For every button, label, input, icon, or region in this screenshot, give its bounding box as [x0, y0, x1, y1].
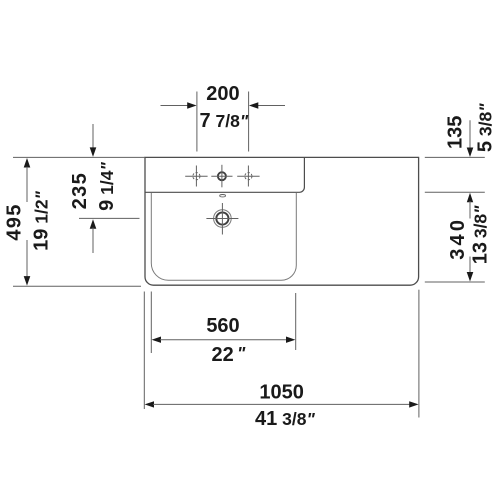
washbasin outer outline — [145, 157, 419, 285]
dim 560 extension line right — [295, 293, 297, 350]
dim 495 extension line top — [13, 156, 145, 158]
dim 135 extension line bottom / deck level — [425, 191, 485, 193]
svg-text:235: 235 — [69, 172, 91, 210]
svg-text:135: 135 — [445, 116, 467, 149]
svg-text:22": 22" — [212, 343, 246, 366]
dim 495 dimension line with arrows — [24, 158, 31, 286]
basin bowl — [151, 193, 296, 280]
drain hole — [206, 203, 238, 235]
dim 340 dimension line with arrows — [467, 193, 474, 282]
svg-text:19 1/2": 19 1/2" — [31, 190, 53, 250]
dim 235 lower arrow — [90, 219, 97, 253]
svg-text:41 3/8": 41 3/8" — [255, 408, 315, 430]
dim 200 arrow left — [161, 102, 197, 108]
dim 200 extension line left — [196, 92, 198, 152]
dim 560 extension line left — [150, 292, 152, 354]
dim 560 dimension line with arrows — [152, 337, 296, 343]
svg-text:13 3/8": 13 3/8" — [470, 205, 492, 264]
svg-text:1050: 1050 — [259, 381, 304, 403]
dim 135 extension line top — [425, 156, 485, 158]
dim 135 arrow — [467, 120, 474, 157]
dim 1050 extension line left — [143, 292, 145, 410]
dim 235 upper arrow — [90, 124, 97, 157]
tap deck outline — [145, 157, 304, 192]
dim 200 arrow right — [249, 102, 285, 108]
svg-text:7 7/8": 7 7/8" — [200, 110, 249, 132]
svg-text:495: 495 — [4, 203, 26, 240]
dim 200 extension line right — [248, 92, 250, 152]
dim 235 extension line at drain level — [79, 217, 140, 219]
overflow slot — [220, 195, 226, 197]
svg-text:9 1/4": 9 1/4" — [96, 161, 118, 210]
dim 1050 extension line right — [418, 290, 420, 418]
svg-text:340: 340 — [447, 217, 469, 260]
svg-text:200: 200 — [206, 83, 239, 105]
dim 1050 dimension line with arrows — [145, 401, 419, 407]
svg-text:5 3/8": 5 3/8" — [475, 103, 497, 152]
faucet hole right (dashed) — [237, 166, 259, 187]
dim 340 extension line bottom — [425, 281, 485, 283]
dim 495 extension line bottom — [13, 285, 141, 287]
faucet hole left (dashed) — [185, 166, 207, 187]
svg-text:560: 560 — [206, 315, 239, 337]
faucet hole center — [211, 165, 232, 188]
